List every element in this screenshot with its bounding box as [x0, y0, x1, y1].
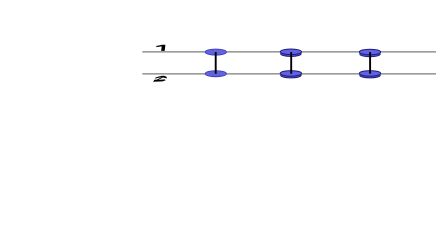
pad B2 (bottom pad, middle link)	[280, 71, 301, 78]
pad C1 (top pad, right link)	[359, 49, 380, 57]
pad B1 (top pad, middle link)	[280, 49, 301, 57]
pad C2 (bottom pad, right link)	[359, 71, 380, 78]
net label 1	[156, 45, 165, 51]
link B (middle vertical jumper)	[290, 52, 292, 74]
link C (right vertical jumper)	[369, 52, 371, 74]
wire 2 (bottom conductor)	[142, 73, 436, 75]
net label 2	[153, 76, 167, 82]
wire 1 (top conductor)	[142, 51, 436, 53]
link A (left vertical jumper)	[215, 52, 217, 74]
pad A2 (bottom pad, left link)	[205, 71, 226, 77]
pad A1 (top pad, left link)	[205, 49, 226, 55]
